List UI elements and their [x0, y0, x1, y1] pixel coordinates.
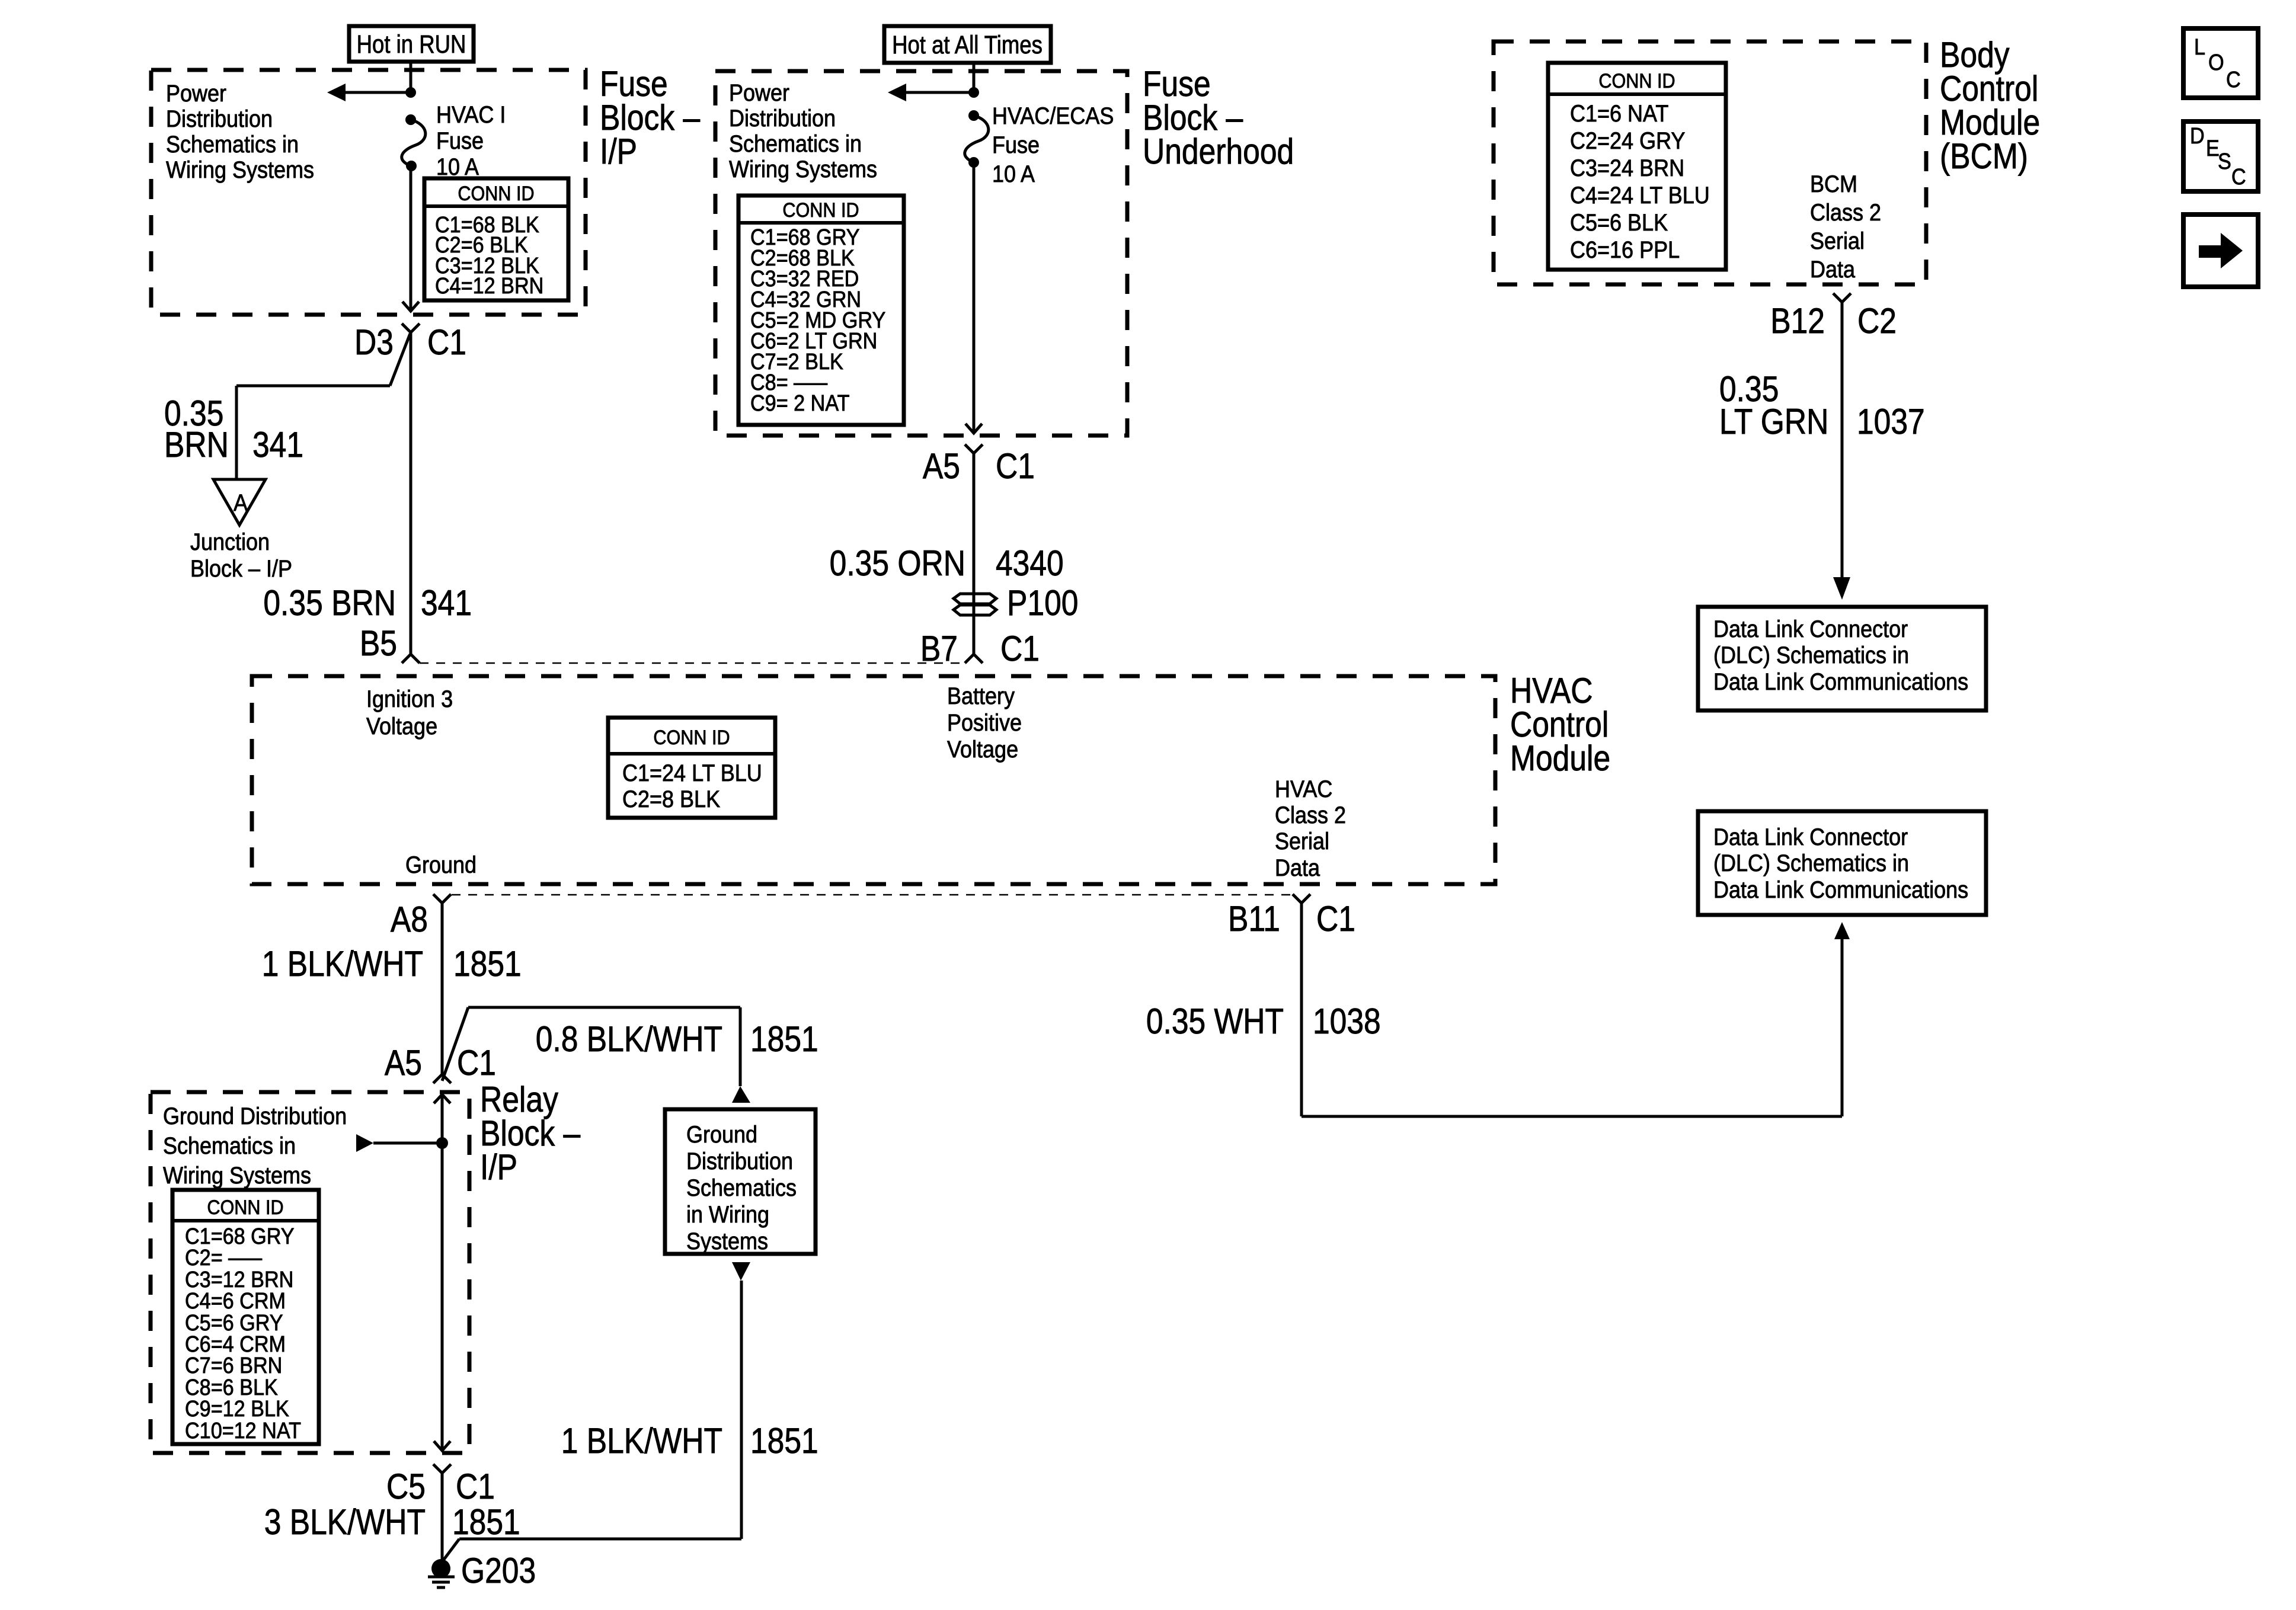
svg-text:Ground Distribution: Ground Distribution	[163, 1103, 347, 1129]
wire: through relay block down	[441, 1094, 444, 1449]
connector B12 symbol below BCM	[1833, 293, 1851, 302]
wire: ground dist box down	[740, 1281, 743, 1539]
svg-text:Data Link Communications: Data Link Communications	[1713, 669, 1968, 695]
connector B11 symbol below HVAC module	[1293, 894, 1310, 903]
svg-text:C2=8 BLK: C2=8 BLK	[622, 786, 720, 812]
connector face C1 (top, thin dashed)	[420, 662, 966, 664]
svg-text:1038: 1038	[1313, 1001, 1381, 1041]
svg-text:CONN ID: CONN ID	[653, 726, 730, 749]
fuse F1 HVAC I 10A: bottom terminal dot	[406, 161, 417, 171]
svg-text:Systems: Systems	[686, 1228, 768, 1254]
svg-text:D: D	[2190, 123, 2205, 148]
svg-text:CONN ID: CONN ID	[207, 1196, 283, 1219]
wire: fuse output down to connector D3	[410, 166, 412, 311]
svg-text:C2: C2	[1857, 300, 1897, 341]
svg-text:Distribution: Distribution	[729, 105, 836, 132]
svg-text:0.35 ORN: 0.35 ORN	[830, 543, 965, 583]
svg-text:1 BLK/WHT: 1 BLK/WHT	[561, 1420, 722, 1461]
table CONN ID (relay block)	[172, 1190, 319, 1444]
wire: 0.8 BLK/WHT diagonal from A5	[442, 1007, 468, 1081]
svg-text:C1=24 LT BLU: C1=24 LT BLU	[622, 760, 762, 786]
svg-text:A5: A5	[385, 1042, 422, 1083]
wire: run left toward G203	[459, 1538, 741, 1541]
wire: diagonal into ground node	[443, 1539, 459, 1560]
wire: B11 serial data down	[1300, 903, 1303, 1116]
svg-text:CONN ID: CONN ID	[1598, 70, 1675, 92]
svg-text:O: O	[2208, 49, 2224, 75]
grommet P100 symbol	[954, 594, 996, 604]
svg-text:C5: C5	[386, 1466, 426, 1506]
table CONN ID (BCM)	[1548, 63, 1726, 270]
svg-text:Data Link Communications: Data Link Communications	[1713, 877, 1968, 903]
svg-text:Positive: Positive	[947, 710, 1022, 736]
svg-text:C2=24 GRY: C2=24 GRY	[1570, 128, 1685, 154]
svg-text:Module: Module	[1510, 738, 1610, 778]
svg-text:Fuse: Fuse	[436, 128, 484, 154]
svg-text:C1: C1	[1000, 628, 1040, 668]
wire: branch horizontal run	[236, 385, 390, 388]
node: junction dot at fuse feed	[405, 87, 416, 98]
svg-text:B5: B5	[360, 623, 397, 663]
wire: Hot at All Times feed down	[973, 63, 976, 90]
svg-text:Voltage: Voltage	[366, 713, 437, 740]
svg-text:A: A	[234, 490, 248, 516]
connector D3/C1 symbol below box	[402, 324, 420, 332]
svg-text:Wiring Systems: Wiring Systems	[729, 156, 877, 183]
fuse block underhood dashed outline	[715, 71, 1127, 436]
svg-text:C4=24 LT BLU: C4=24 LT BLU	[1570, 183, 1710, 209]
wire: 0.8 BLK/WHT down to ground dist box	[739, 1007, 742, 1086]
svg-text:HVAC: HVAC	[1275, 776, 1332, 802]
svg-text:Voltage: Voltage	[947, 737, 1018, 763]
svg-text:Schematics: Schematics	[686, 1175, 797, 1201]
svg-text:I/P: I/P	[480, 1147, 517, 1187]
svg-text:P100: P100	[1007, 582, 1078, 623]
connector A8 symbol below HVAC module	[433, 894, 451, 903]
svg-text:Fuse: Fuse	[992, 132, 1040, 158]
svg-text:BRN: BRN	[164, 424, 229, 465]
svg-text:C1: C1	[996, 446, 1035, 486]
svg-text:10 A: 10 A	[992, 161, 1035, 187]
svg-text:Serial: Serial	[1810, 228, 1865, 254]
svg-text:(BCM): (BCM)	[1940, 136, 2028, 176]
svg-text:C4=12 BRN: C4=12 BRN	[435, 273, 543, 298]
svg-text:Ground: Ground	[686, 1122, 757, 1148]
box: Data Link Connector schematics (upper)	[1698, 607, 1986, 710]
svg-text:C6=16 PPL: C6=16 PPL	[1570, 237, 1680, 263]
arrowhead: into DLC box (lower)	[1834, 922, 1850, 939]
arrowhead: at ground distribution box (bottom)	[732, 1262, 750, 1281]
nav box LOC	[2183, 28, 2258, 98]
svg-text:C: C	[2226, 66, 2241, 92]
ground G203 node dot	[431, 1559, 450, 1578]
svg-text:C1: C1	[1316, 898, 1355, 939]
wire: serial data up to DLC box	[1841, 939, 1844, 1116]
wire: Hot in RUN feed down	[410, 62, 412, 90]
arrowhead: wire exits relay block	[434, 1441, 450, 1451]
svg-text:341: 341	[421, 582, 472, 623]
fuse block I/P dashed outline	[151, 70, 586, 315]
wire: branch to power distribution (left)	[346, 91, 411, 94]
svg-text:0.35 WHT: 0.35 WHT	[1146, 1001, 1284, 1041]
svg-text:Schematics in: Schematics in	[166, 132, 299, 158]
arrowhead: wire exits fuse block underhood	[965, 424, 982, 433]
svg-text:0.8 BLK/WHT: 0.8 BLK/WHT	[536, 1019, 722, 1059]
wire: serial data run right to DLC	[1302, 1115, 1842, 1118]
svg-text:B7: B7	[920, 628, 958, 668]
svg-text:CONN ID: CONN ID	[458, 183, 534, 205]
svg-text:C1: C1	[456, 1466, 495, 1506]
junction block A triangle symbol	[213, 479, 266, 525]
svg-text:Battery: Battery	[947, 683, 1015, 709]
svg-text:L: L	[2194, 34, 2205, 59]
arrowhead: wire exits fuse block I/P	[402, 302, 419, 311]
wire: C5 down to ground G203	[441, 1473, 444, 1560]
svg-text:Data: Data	[1810, 257, 1856, 283]
svg-text:B12: B12	[1770, 300, 1825, 341]
table CONN ID (fuse block I/P)	[424, 178, 568, 300]
svg-text:Data Link Connector: Data Link Connector	[1713, 616, 1908, 642]
wire: branch down to junction block A	[235, 386, 238, 479]
svg-text:0.35 BRN: 0.35 BRN	[263, 582, 396, 623]
svg-text:Ground: Ground	[405, 852, 477, 878]
connector C5 symbol below relay block	[433, 1464, 451, 1473]
svg-text:C1=6 NAT: C1=6 NAT	[1570, 101, 1668, 127]
svg-text:Power: Power	[729, 80, 789, 106]
svg-text:HVAC I: HVAC I	[436, 102, 506, 128]
arrowhead: to power distribution schematics	[327, 84, 346, 101]
arrowhead: branch to ground distribution (relay)	[356, 1134, 373, 1152]
svg-text:C: C	[2231, 164, 2246, 189]
svg-text:C1: C1	[427, 322, 466, 362]
arrowhead: into DLC box (upper)	[1833, 577, 1850, 600]
svg-text:Schematics in: Schematics in	[163, 1133, 296, 1159]
svg-text:I/P: I/P	[600, 131, 637, 171]
svg-text:Wiring Systems: Wiring Systems	[163, 1163, 311, 1189]
connector A5 symbol at relay block	[433, 1074, 451, 1083]
table CONN ID (HVAC module)	[608, 718, 775, 818]
wire: B12 serial data down to DLC	[1841, 302, 1844, 577]
svg-text:Junction: Junction	[190, 529, 270, 555]
svg-text:Ignition 3: Ignition 3	[366, 686, 453, 712]
svg-text:C9= 2 NAT: C9= 2 NAT	[750, 390, 849, 415]
svg-text:Block – I/P: Block – I/P	[190, 556, 292, 582]
HVAC control module dashed outline	[252, 676, 1495, 884]
svg-text:Serial: Serial	[1275, 828, 1329, 854]
node: junction dot at underhood fuse feed	[968, 87, 979, 98]
svg-text:Distribution: Distribution	[166, 106, 273, 132]
svg-text:Underhood: Underhood	[1143, 131, 1294, 171]
label box "Hot at All Times"	[884, 26, 1051, 63]
svg-text:A8: A8	[391, 899, 428, 939]
svg-text:B11: B11	[1228, 898, 1280, 939]
svg-text:Distribution: Distribution	[686, 1148, 793, 1174]
svg-text:Hot in RUN: Hot in RUN	[357, 30, 466, 58]
wire: D3 down to HVAC B5	[410, 332, 412, 654]
node: junction dot in relay block	[436, 1137, 448, 1149]
svg-text:G203: G203	[461, 1550, 536, 1590]
box: Data Link Connector schematics (lower)	[1698, 811, 1986, 915]
svg-text:1 BLK/WHT: 1 BLK/WHT	[262, 943, 423, 984]
box: Ground Distribution Schematics (solid)	[665, 1109, 816, 1254]
connector B7 symbol at HVAC module	[965, 654, 983, 663]
svg-text:in Wiring: in Wiring	[686, 1202, 769, 1228]
svg-text:BCM: BCM	[1810, 171, 1857, 197]
svg-text:Data Link Connector: Data Link Connector	[1713, 824, 1908, 850]
svg-text:Class 2: Class 2	[1275, 802, 1346, 828]
wire: branch from arrow to main wire	[373, 1142, 442, 1145]
fuse F1 HVAC I 10A: top terminal dot	[405, 114, 416, 125]
svg-text:1851: 1851	[452, 1502, 520, 1542]
fuse F1 HVAC I 10A: element curve	[402, 120, 426, 166]
nav box right-arrow	[2183, 215, 2258, 287]
svg-text:D3: D3	[354, 322, 394, 362]
svg-text:HVAC/ECAS: HVAC/ECAS	[992, 103, 1114, 129]
svg-text:LT GRN: LT GRN	[1719, 401, 1828, 441]
nav box DESC	[2183, 121, 2258, 191]
wire: 0.8 BLK/WHT horizontal run	[468, 1006, 740, 1009]
svg-text:C1: C1	[457, 1042, 496, 1083]
svg-text:(DLC) Schematics in: (DLC) Schematics in	[1713, 850, 1909, 876]
svg-text:1851: 1851	[750, 1019, 818, 1059]
svg-text:Class 2: Class 2	[1810, 200, 1881, 226]
wire: A8 ground down to relay block	[441, 903, 444, 1074]
svg-text:A5: A5	[923, 446, 960, 486]
svg-text:C10=12 NAT: C10=12 NAT	[185, 1417, 301, 1443]
svg-text:S: S	[2218, 148, 2231, 174]
table CONN ID (fuse block underhood)	[738, 196, 904, 425]
svg-text:Data: Data	[1275, 855, 1320, 881]
connector B5 symbol at HVAC module	[402, 654, 420, 663]
connector face C1 (bottom, thin dashed)	[452, 894, 1292, 896]
svg-text:C3=24 BRN: C3=24 BRN	[1570, 155, 1684, 181]
svg-text:Hot at All Times: Hot at All Times	[892, 31, 1043, 59]
svg-text:1851: 1851	[453, 943, 522, 984]
arrowhead: wire enters relay block	[434, 1094, 450, 1103]
wire: A5 down to P100	[973, 453, 976, 654]
body control module dashed outline	[1494, 41, 1926, 284]
svg-text:Power: Power	[166, 81, 226, 107]
arrowhead: to power distribution schematics (underhood)	[888, 84, 906, 101]
svg-text:C5=6 BLK: C5=6 BLK	[1570, 210, 1668, 236]
svg-text:3 BLK/WHT: 3 BLK/WHT	[264, 1502, 426, 1542]
wire: branch diagonal to junction block	[390, 334, 410, 386]
svg-text:1851: 1851	[750, 1420, 818, 1461]
arrowhead: at ground distribution box (top)	[732, 1086, 750, 1103]
ground G203 symbol bars	[428, 1576, 455, 1579]
label box "Hot in RUN"	[349, 26, 474, 62]
svg-text:341: 341	[252, 424, 303, 465]
connector A5/C1 symbol below underhood box	[965, 444, 983, 453]
svg-text:(DLC) Schematics in: (DLC) Schematics in	[1713, 642, 1909, 668]
svg-text:1037: 1037	[1857, 401, 1925, 441]
fuse F2 HVAC/ECAS 10A: top terminal dot	[968, 110, 979, 121]
fuse F2 HVAC/ECAS 10A: element curve	[965, 116, 989, 162]
fuse F2 HVAC/ECAS 10A: bottom terminal dot	[968, 157, 979, 168]
svg-text:4340: 4340	[996, 543, 1064, 583]
relay block I/P dashed outline	[151, 1092, 469, 1453]
svg-text:Wiring Systems: Wiring Systems	[166, 157, 314, 183]
svg-text:Schematics in: Schematics in	[729, 131, 862, 157]
svg-text:CONN ID: CONN ID	[782, 199, 859, 222]
wire: fuse output down to connector A5	[973, 162, 976, 433]
wire: branch to power distribution (underhood)	[906, 91, 974, 94]
